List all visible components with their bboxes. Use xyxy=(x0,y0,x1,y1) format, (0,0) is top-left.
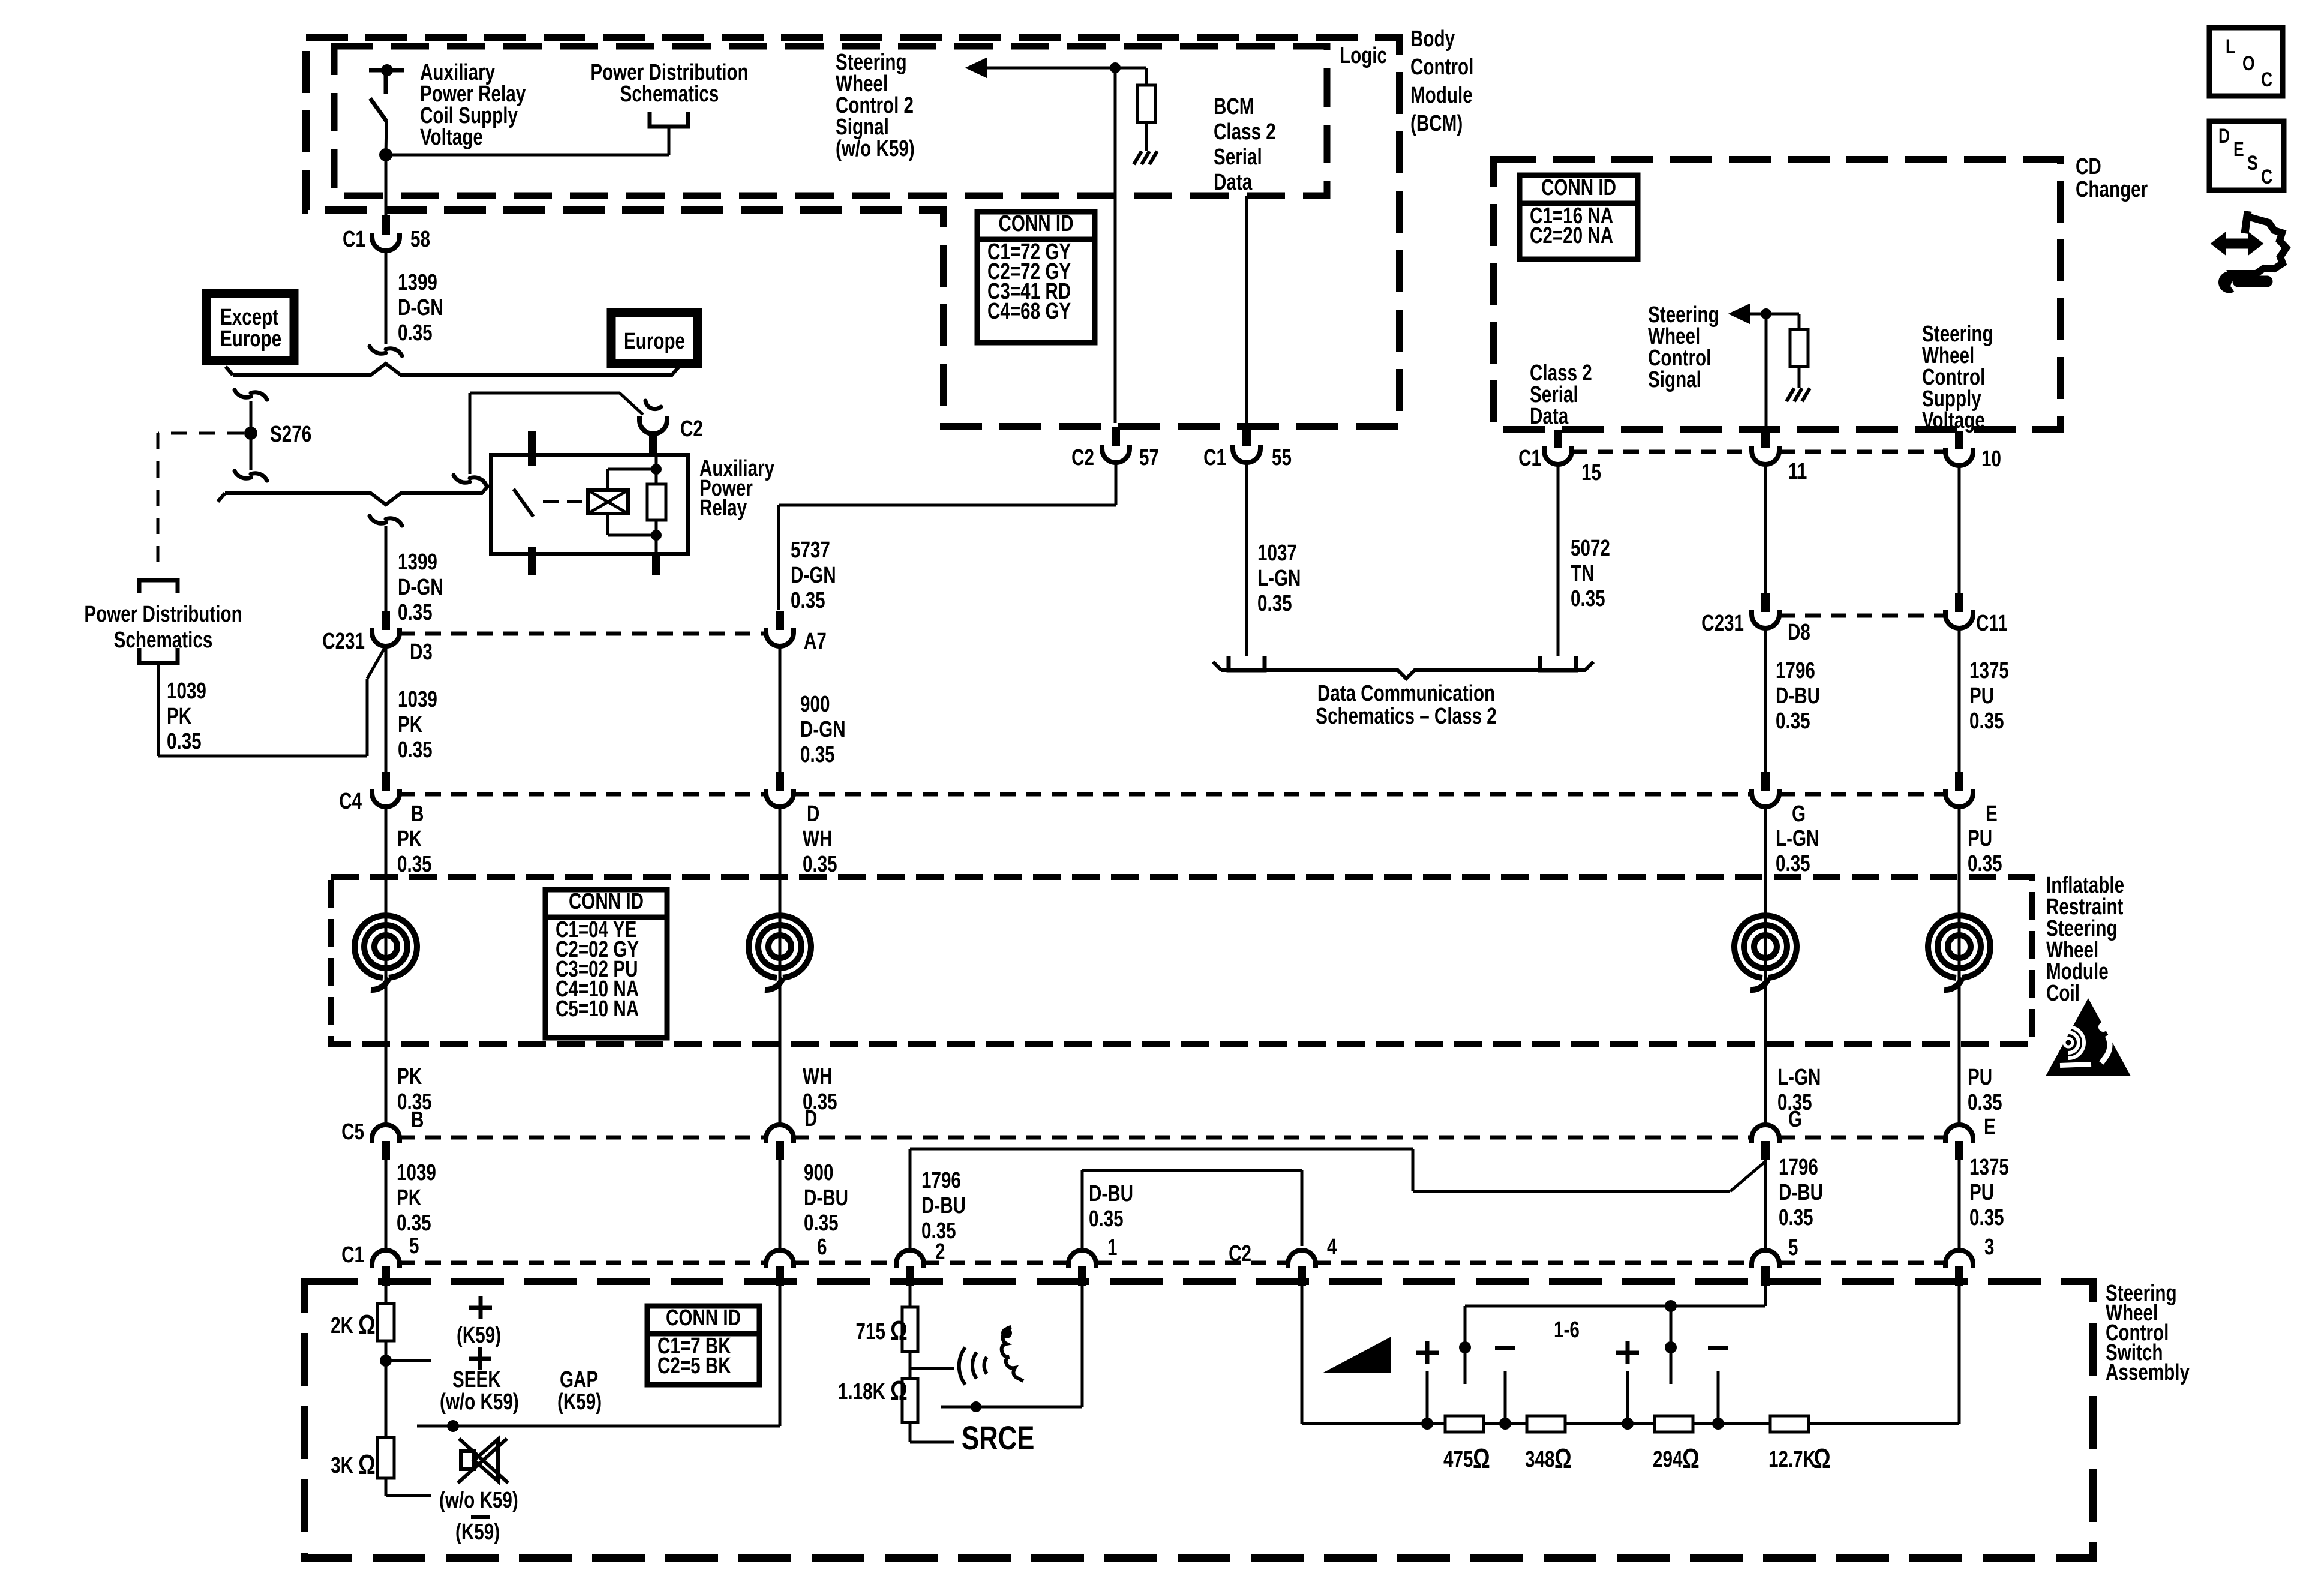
svg-text:0.35: 0.35 xyxy=(398,737,433,763)
svg-text:C5: C5 xyxy=(341,1119,364,1145)
svg-text:Data Communication: Data Communication xyxy=(1317,681,1495,706)
svg-text:C: C xyxy=(2261,68,2272,91)
svg-text:(BCM): (BCM) xyxy=(1410,111,1463,136)
svg-text:Ω: Ω xyxy=(890,1376,908,1406)
svg-text:Relay: Relay xyxy=(699,496,747,521)
svg-text:C1: C1 xyxy=(1518,446,1541,471)
svg-text:C2: C2 xyxy=(680,416,703,442)
svg-text:PK: PK xyxy=(397,1064,422,1089)
svg-text:D-BU: D-BU xyxy=(1089,1181,1133,1206)
svg-text:1037: 1037 xyxy=(1257,541,1297,566)
svg-text:D-GN: D-GN xyxy=(791,563,836,588)
svg-text:Ω: Ω xyxy=(1473,1443,1490,1474)
svg-text:G: G xyxy=(1792,801,1806,827)
svg-text:1375: 1375 xyxy=(1969,658,2009,683)
svg-text:C1: C1 xyxy=(341,1242,364,1268)
svg-text:PU: PU xyxy=(1969,1180,1994,1205)
svg-text:D-BU: D-BU xyxy=(1779,1180,1823,1205)
svg-text:D8: D8 xyxy=(1788,620,1810,645)
svg-text:L-GN: L-GN xyxy=(1777,1065,1821,1090)
svg-text:1039: 1039 xyxy=(398,687,437,712)
svg-text:475: 475 xyxy=(1443,1447,1473,1472)
svg-text:0.35: 0.35 xyxy=(1968,851,2002,876)
svg-text:1.18K: 1.18K xyxy=(838,1379,885,1404)
svg-text:1399: 1399 xyxy=(398,550,437,575)
svg-text:Data: Data xyxy=(1214,170,1253,195)
svg-text:0.35: 0.35 xyxy=(398,600,433,625)
svg-text:BCM: BCM xyxy=(1214,94,1254,119)
svg-text:PK: PK xyxy=(397,827,422,852)
svg-text:CD: CD xyxy=(2076,154,2101,179)
svg-text:WH: WH xyxy=(803,827,832,852)
svg-text:Ω: Ω xyxy=(358,1310,376,1340)
svg-text:294: 294 xyxy=(1653,1447,1682,1472)
svg-text:Voltage: Voltage xyxy=(1922,408,1985,433)
svg-text:0.35: 0.35 xyxy=(791,588,825,613)
svg-text:C11: C11 xyxy=(1976,611,2008,636)
svg-text:L-GN: L-GN xyxy=(1257,566,1301,591)
svg-text:CONN ID: CONN ID xyxy=(998,211,1073,236)
svg-text:(K59): (K59) xyxy=(457,1323,501,1348)
svg-text:D: D xyxy=(2218,125,2230,148)
svg-text:Changer: Changer xyxy=(2076,177,2148,202)
svg-text:S: S xyxy=(2247,152,2258,175)
svg-text:C: C xyxy=(2261,166,2272,188)
svg-text:Control: Control xyxy=(1410,55,1473,80)
svg-text:0.35: 0.35 xyxy=(1777,1090,1812,1115)
svg-text:Ω: Ω xyxy=(1554,1443,1572,1474)
svg-text:C4=68 GY: C4=68 GY xyxy=(987,299,1071,324)
svg-text:0.35: 0.35 xyxy=(803,1089,837,1115)
svg-text:C1: C1 xyxy=(1203,445,1226,470)
svg-text:Ω: Ω xyxy=(890,1316,908,1346)
svg-text:0.35: 0.35 xyxy=(167,729,202,754)
svg-text:Serial: Serial xyxy=(1214,145,1262,170)
svg-text:0.35: 0.35 xyxy=(1968,1090,2002,1115)
svg-text:C2: C2 xyxy=(1229,1241,1251,1266)
svg-text:3: 3 xyxy=(1984,1235,1994,1260)
svg-text:WH: WH xyxy=(803,1064,832,1089)
svg-text:PU: PU xyxy=(1968,1065,1992,1090)
svg-text:C2: C2 xyxy=(1071,445,1094,470)
svg-text:Data: Data xyxy=(1530,404,1569,429)
svg-text:C1: C1 xyxy=(343,227,365,252)
svg-text:C5=10 NA: C5=10 NA xyxy=(556,996,639,1022)
svg-text:1796: 1796 xyxy=(1776,658,1815,683)
svg-text:58: 58 xyxy=(410,227,430,252)
svg-text:(w/o K59): (w/o K59) xyxy=(439,1488,518,1513)
svg-text:1796: 1796 xyxy=(1779,1155,1818,1180)
svg-text:1399: 1399 xyxy=(398,270,437,295)
svg-text:(K59): (K59) xyxy=(557,1389,602,1415)
svg-text:5737: 5737 xyxy=(791,538,830,563)
svg-text:E: E xyxy=(1986,801,1998,827)
svg-text:0.35: 0.35 xyxy=(804,1211,839,1236)
svg-text:0.35: 0.35 xyxy=(1257,591,1292,616)
svg-text:L: L xyxy=(2226,35,2235,58)
svg-text:Schematics: Schematics xyxy=(114,628,213,653)
svg-text:E: E xyxy=(2233,138,2244,161)
svg-text:D-BU: D-BU xyxy=(921,1193,966,1218)
svg-text:D-GN: D-GN xyxy=(800,717,846,742)
svg-text:PK: PK xyxy=(398,712,423,737)
svg-text:900: 900 xyxy=(804,1160,833,1185)
svg-text:C2=5 BK: C2=5 BK xyxy=(657,1353,731,1379)
svg-text:PK: PK xyxy=(167,704,192,729)
svg-text:0.35: 0.35 xyxy=(398,320,433,346)
svg-text:E: E xyxy=(1984,1115,1996,1140)
svg-text:0.35: 0.35 xyxy=(1969,709,2004,734)
svg-text:Europe: Europe xyxy=(624,329,685,354)
svg-text:10: 10 xyxy=(1981,446,2001,472)
svg-text:O: O xyxy=(2242,52,2255,75)
svg-text:(w/o K59): (w/o K59) xyxy=(836,136,915,161)
svg-text:(w/o K59): (w/o K59) xyxy=(440,1389,519,1415)
svg-text:1039: 1039 xyxy=(167,679,206,704)
svg-text:Body: Body xyxy=(1410,26,1455,52)
svg-text:Schematics: Schematics xyxy=(620,82,719,107)
svg-text:PU: PU xyxy=(1968,826,1992,851)
svg-text:15: 15 xyxy=(1581,460,1601,485)
svg-text:C2=20 NA: C2=20 NA xyxy=(1530,223,1613,248)
svg-text:C231: C231 xyxy=(322,629,365,654)
svg-text:CONN ID: CONN ID xyxy=(569,889,644,914)
svg-text:0.35: 0.35 xyxy=(1571,586,1605,611)
svg-text:Ω: Ω xyxy=(1813,1443,1831,1474)
svg-text:1-6: 1-6 xyxy=(1554,1317,1580,1343)
svg-text:6: 6 xyxy=(817,1235,827,1260)
svg-text:Signal: Signal xyxy=(1648,367,1701,392)
svg-text:1039: 1039 xyxy=(397,1160,436,1185)
svg-text:0.35: 0.35 xyxy=(1969,1205,2004,1230)
svg-text:2: 2 xyxy=(935,1239,945,1265)
svg-text:348: 348 xyxy=(1525,1447,1554,1472)
svg-text:12.7K: 12.7K xyxy=(1768,1447,1816,1472)
svg-text:Europe: Europe xyxy=(220,326,281,352)
svg-text:Ω: Ω xyxy=(358,1449,376,1480)
svg-text:0.35: 0.35 xyxy=(1776,851,1810,876)
svg-text:CONN ID: CONN ID xyxy=(1541,175,1616,200)
svg-text:TN: TN xyxy=(1571,561,1594,586)
svg-text:4: 4 xyxy=(1327,1235,1337,1260)
svg-text:0.35: 0.35 xyxy=(397,1089,432,1115)
svg-text:0.35: 0.35 xyxy=(803,852,837,877)
svg-text:Ω: Ω xyxy=(1682,1443,1700,1474)
svg-text:C4: C4 xyxy=(339,789,362,814)
svg-text:57: 57 xyxy=(1139,445,1159,470)
svg-text:D: D xyxy=(807,801,819,827)
svg-text:(K59): (K59) xyxy=(455,1520,500,1545)
svg-text:D-BU: D-BU xyxy=(804,1185,848,1211)
svg-text:900: 900 xyxy=(800,692,830,717)
svg-text:5: 5 xyxy=(1788,1235,1798,1260)
svg-text:0.35: 0.35 xyxy=(800,742,835,767)
svg-text:Class 2: Class 2 xyxy=(1214,119,1276,145)
svg-text:0.35: 0.35 xyxy=(1779,1205,1813,1230)
svg-text:3K: 3K xyxy=(331,1453,353,1478)
svg-text:2K: 2K xyxy=(331,1313,353,1338)
svg-text:B: B xyxy=(411,801,424,827)
svg-text:1796: 1796 xyxy=(921,1168,961,1193)
svg-text:5: 5 xyxy=(409,1233,419,1259)
svg-text:A7: A7 xyxy=(804,629,827,654)
svg-text:Coil: Coil xyxy=(2046,981,2080,1006)
svg-text:Assembly: Assembly xyxy=(2106,1360,2190,1385)
svg-text:S276: S276 xyxy=(270,422,311,447)
svg-text:11: 11 xyxy=(1788,459,1807,484)
svg-text:CONN ID: CONN ID xyxy=(666,1305,741,1331)
svg-text:715: 715 xyxy=(856,1319,885,1344)
svg-text:Power Distribution: Power Distribution xyxy=(84,602,242,627)
svg-text:PK: PK xyxy=(397,1185,422,1211)
svg-text:Module: Module xyxy=(1410,83,1473,108)
svg-text:D-GN: D-GN xyxy=(398,295,443,320)
svg-text:55: 55 xyxy=(1272,445,1292,470)
svg-text:C231: C231 xyxy=(1701,611,1744,636)
svg-text:L-GN: L-GN xyxy=(1776,826,1819,851)
svg-text:D3: D3 xyxy=(410,640,433,665)
svg-text:Schematics – Class 2: Schematics – Class 2 xyxy=(1316,704,1496,729)
svg-text:0.35: 0.35 xyxy=(397,852,432,877)
svg-text:5072: 5072 xyxy=(1571,536,1610,561)
svg-text:0.35: 0.35 xyxy=(397,1211,431,1236)
svg-text:SRCE: SRCE xyxy=(962,1419,1034,1457)
svg-text:Voltage: Voltage xyxy=(420,125,483,150)
svg-text:D-BU: D-BU xyxy=(1776,683,1820,709)
svg-text:0.35: 0.35 xyxy=(1776,709,1810,734)
svg-text:D-GN: D-GN xyxy=(398,575,443,600)
svg-text:1: 1 xyxy=(1107,1235,1117,1260)
svg-text:1375: 1375 xyxy=(1969,1155,2009,1180)
svg-text:PU: PU xyxy=(1969,683,1994,709)
svg-text:Logic: Logic xyxy=(1340,43,1387,68)
svg-text:0.35: 0.35 xyxy=(1089,1206,1124,1232)
